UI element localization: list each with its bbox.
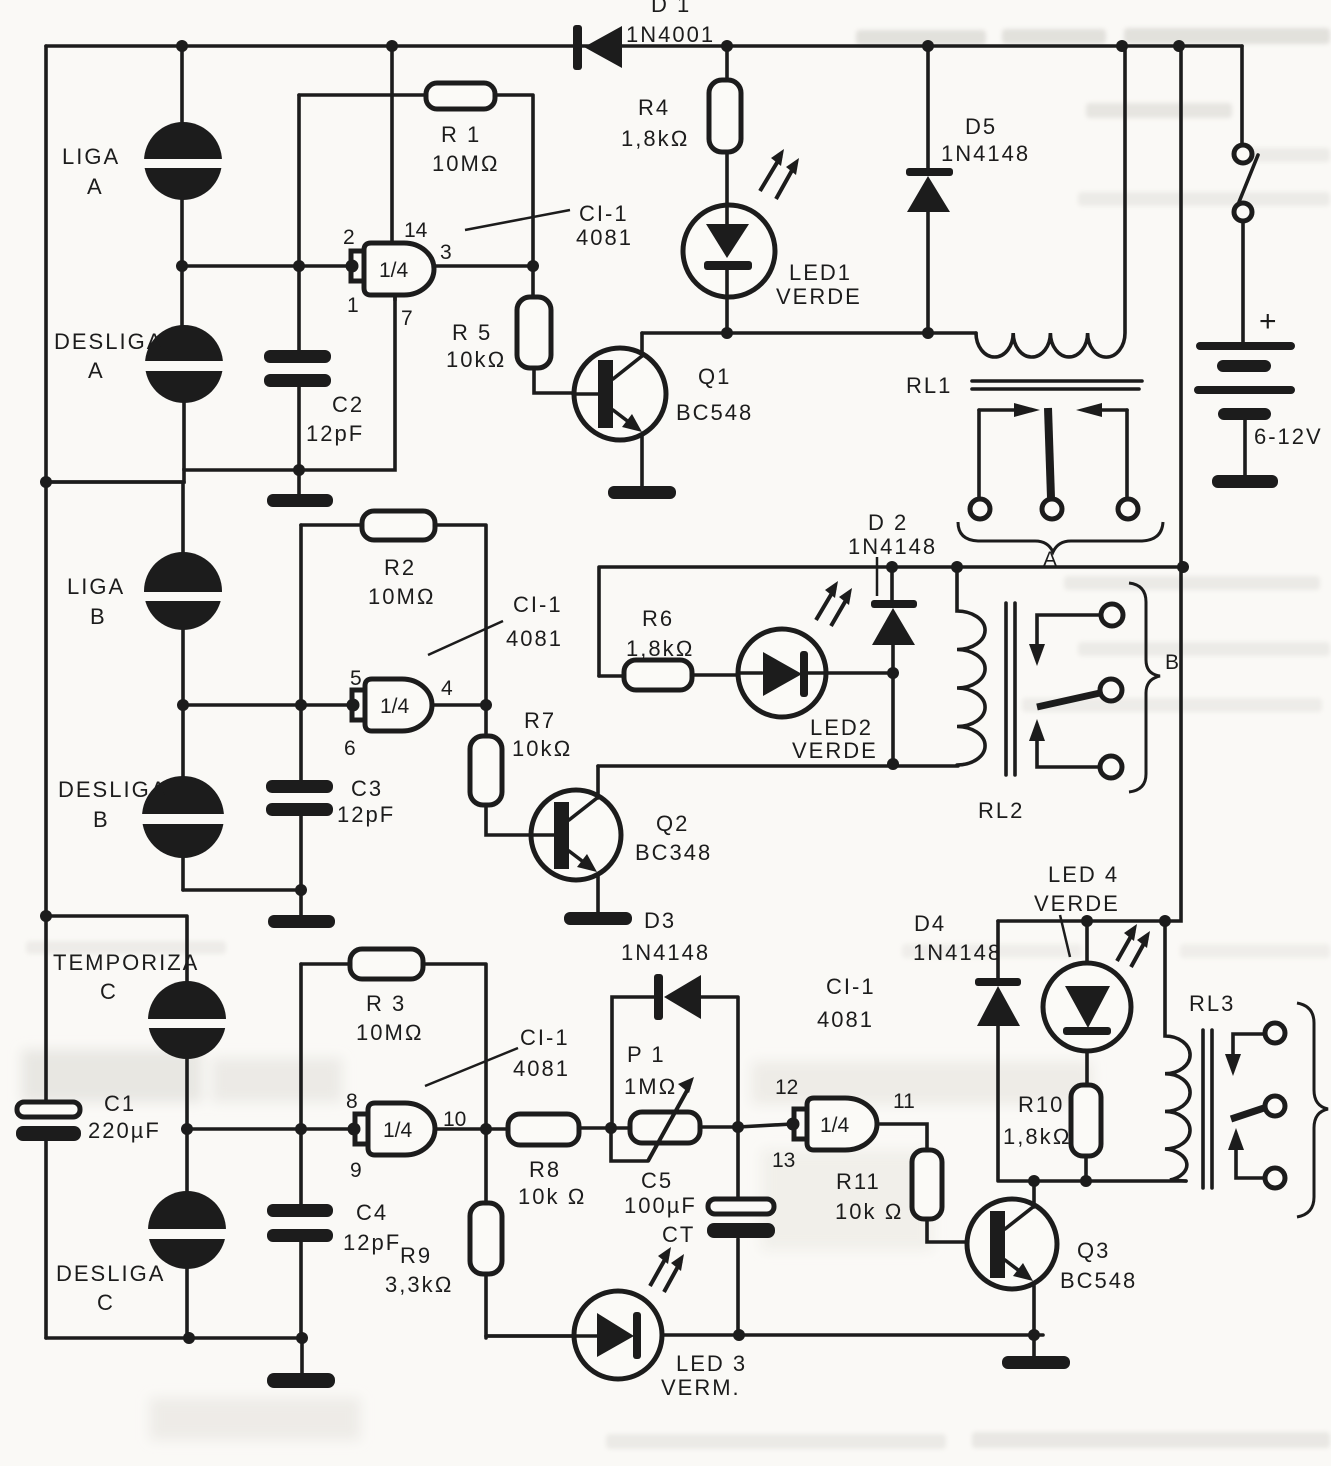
wire gate A input line <box>182 264 348 268</box>
battery B1 6-12V <box>1194 305 1323 488</box>
svg-text:DESLIGA: DESLIGA <box>56 1261 165 1286</box>
svg-text:R 5: R 5 <box>452 320 492 345</box>
svg-text:2: 2 <box>343 226 355 249</box>
LED3 VERM <box>486 1247 747 1400</box>
svg-text:A: A <box>87 174 104 199</box>
svg-text:3: 3 <box>440 241 452 264</box>
svg-text:10k Ω: 10k Ω <box>518 1184 586 1209</box>
touch pad TEMPORIZA C <box>144 981 232 1059</box>
svg-text:4: 4 <box>441 677 453 700</box>
wire left rail <box>44 46 48 1338</box>
op-gate U1D 4081 <box>738 1076 915 1172</box>
svg-text:6-12V: 6-12V <box>1254 424 1323 449</box>
wire rail to TEMPORIZA <box>46 916 187 982</box>
brace contacts B <box>1129 583 1179 792</box>
svg-text:B: B <box>90 604 107 629</box>
wire relay C top <box>998 921 1186 1181</box>
svg-text:C3: C3 <box>351 776 383 801</box>
svg-text:LED 4: LED 4 <box>1048 862 1119 887</box>
label CI-1 4081 (B) <box>428 592 563 655</box>
svg-text:14: 14 <box>404 219 428 242</box>
svg-text:A: A <box>88 358 105 383</box>
resistor R8 10k <box>508 1114 611 1209</box>
transistor Q1 BC548 <box>573 333 753 487</box>
capacitor C4 12pF <box>267 1200 401 1255</box>
wire right rail <box>998 46 1181 921</box>
svg-text:DESLIGA: DESLIGA <box>58 777 167 802</box>
diode D5 1N4148 <box>906 46 1030 333</box>
wire sensor column A <box>182 46 184 470</box>
svg-text:+: + <box>1259 305 1277 338</box>
svg-text:1,8kΩ: 1,8kΩ <box>621 126 689 151</box>
wire bottom left ground run <box>46 1336 302 1340</box>
resistor R1 10M <box>299 83 533 266</box>
wire gate B output <box>433 703 486 707</box>
relay RL3 contacts <box>1225 1023 1285 1188</box>
relay coil RL1 <box>906 46 1142 398</box>
svg-text:TEMPORIZA: TEMPORIZA <box>53 950 199 975</box>
label CI-1 4081 (A) <box>465 201 633 250</box>
svg-text:5: 5 <box>350 667 362 690</box>
transistor Q2 BC348 <box>531 766 712 913</box>
svg-text:BC548: BC548 <box>1060 1268 1137 1293</box>
svg-text:LIGA: LIGA <box>67 574 125 599</box>
svg-text:8: 8 <box>346 1090 358 1113</box>
switch S1 <box>1234 46 1258 342</box>
ground Q2 <box>564 912 632 925</box>
svg-text:10k Ω: 10k Ω <box>835 1199 903 1224</box>
relay coil RL2 <box>957 567 1024 823</box>
relay RL1 contacts <box>970 403 1138 519</box>
svg-text:CT: CT <box>662 1222 695 1247</box>
touch pad DESLIGA B <box>138 776 228 858</box>
resistor R3 10M <box>301 949 486 1129</box>
svg-text:6: 6 <box>344 737 356 760</box>
LED2 VERDE <box>738 581 893 763</box>
svg-text:C: C <box>100 979 118 1004</box>
transistor Q3 BC548 <box>967 1181 1137 1357</box>
svg-text:R6: R6 <box>642 606 674 631</box>
svg-text:1N4001: 1N4001 <box>626 22 715 47</box>
svg-text:CI-1: CI-1 <box>513 592 563 617</box>
svg-text:VERDE: VERDE <box>1034 891 1120 916</box>
ground B <box>268 915 335 928</box>
svg-text:VERDE: VERDE <box>776 284 862 309</box>
svg-text:R9: R9 <box>400 1243 432 1268</box>
svg-text:R4: R4 <box>638 95 670 120</box>
svg-text:Q3: Q3 <box>1077 1238 1110 1263</box>
svg-text:P 1: P 1 <box>627 1042 666 1067</box>
svg-text:B: B <box>1165 651 1179 674</box>
svg-text:7: 7 <box>401 307 413 330</box>
ground Q1 <box>608 486 676 499</box>
svg-text:RL2: RL2 <box>978 798 1024 823</box>
op-gate U1A 4081 <box>343 46 452 330</box>
svg-text:1,8kΩ: 1,8kΩ <box>626 636 694 661</box>
svg-text:C1: C1 <box>104 1091 136 1116</box>
svg-text:VERM.: VERM. <box>661 1375 741 1400</box>
svg-text:LED 3: LED 3 <box>676 1351 747 1376</box>
wire C3 column <box>299 525 303 918</box>
svg-text:4081: 4081 <box>817 1007 874 1032</box>
svg-text:LIGA: LIGA <box>62 144 120 169</box>
svg-text:13: 13 <box>772 1149 795 1172</box>
wire section B relay top <box>599 567 1183 676</box>
capacitor C2 12pF <box>264 350 364 446</box>
svg-text:LED1: LED1 <box>789 260 852 285</box>
svg-text:1: 1 <box>347 294 359 317</box>
svg-text:RL3: RL3 <box>1189 991 1235 1016</box>
svg-text:4081: 4081 <box>506 626 563 651</box>
svg-text:D4: D4 <box>914 911 946 936</box>
touch pad LIGA B <box>140 552 226 630</box>
touch pad DESLIGA C <box>144 1191 232 1269</box>
svg-text:C5: C5 <box>641 1168 673 1193</box>
op-gate U1C 4081 <box>346 1090 466 1182</box>
svg-text:12: 12 <box>775 1076 798 1099</box>
svg-text:R 3: R 3 <box>366 991 406 1016</box>
svg-text:CI-1: CI-1 <box>579 201 629 226</box>
wire top +V rail <box>46 44 1242 48</box>
svg-text:BC348: BC348 <box>635 840 712 865</box>
svg-text:R2: R2 <box>384 555 416 580</box>
wire sensor column B <box>46 482 184 890</box>
svg-text:Q1: Q1 <box>698 364 731 389</box>
wire gate B input line <box>183 703 348 707</box>
brace contacts A <box>958 522 1163 571</box>
svg-text:LED2: LED2 <box>810 715 873 740</box>
svg-text:B: B <box>93 807 110 832</box>
diode D1 <box>573 0 715 70</box>
trimpot P1 1M <box>611 1042 738 1161</box>
svg-text:D3: D3 <box>644 908 676 933</box>
svg-text:R 1: R 1 <box>441 122 481 147</box>
resistor R9 3,3k <box>385 1129 574 1338</box>
op-gate U1B 4081 <box>344 667 453 760</box>
svg-text:10kΩ: 10kΩ <box>512 736 572 761</box>
wire gate C output <box>437 1127 508 1131</box>
diode D3 1N4148 loop <box>612 908 738 1128</box>
svg-text:1/4: 1/4 <box>379 259 409 282</box>
wire section A bottom <box>46 295 395 482</box>
LED1 VERDE <box>683 149 862 333</box>
svg-text:1N4148: 1N4148 <box>941 141 1030 166</box>
resistor R7 10k <box>470 705 572 835</box>
capacitor C5 100uF CT <box>624 1126 775 1335</box>
svg-text:C2: C2 <box>332 392 364 417</box>
LED4 VERDE <box>1034 862 1150 1085</box>
resistor R11 10k <box>835 1124 991 1242</box>
svg-text:12pF: 12pF <box>343 1230 401 1255</box>
touch pad LIGA A <box>140 122 226 200</box>
svg-text:R7: R7 <box>524 708 556 733</box>
wire C2 column <box>297 95 301 496</box>
wire Q1 collector run <box>642 331 976 335</box>
relay RL2 contacts <box>1029 604 1123 778</box>
capacitor C3 12pF <box>266 776 395 827</box>
svg-text:D 1: D 1 <box>651 0 691 17</box>
ground C <box>267 1373 335 1388</box>
resistor R6 1,8k <box>599 606 738 690</box>
node junction dots <box>176 260 1189 1344</box>
svg-text:12pF: 12pF <box>306 421 364 446</box>
ground A <box>267 494 333 507</box>
svg-text:1,8kΩ: 1,8kΩ <box>1003 1124 1071 1149</box>
svg-text:11: 11 <box>893 1090 915 1113</box>
svg-text:1N4148: 1N4148 <box>913 940 1002 965</box>
wire gate C input line <box>187 1127 348 1131</box>
wire sensor column C <box>185 982 189 1338</box>
svg-text:C: C <box>97 1290 115 1315</box>
svg-text:10kΩ: 10kΩ <box>446 347 506 372</box>
resistor R4 1,8k <box>621 46 741 204</box>
svg-text:10MΩ: 10MΩ <box>356 1020 424 1045</box>
svg-text:4081: 4081 <box>576 225 633 250</box>
svg-text:1/4: 1/4 <box>380 695 410 718</box>
svg-text:DESLIGA: DESLIGA <box>54 329 163 354</box>
svg-text:D5: D5 <box>965 114 997 139</box>
svg-text:Q2: Q2 <box>656 811 689 836</box>
svg-text:CI-1: CI-1 <box>826 974 876 999</box>
svg-text:1/4: 1/4 <box>383 1119 413 1142</box>
svg-text:R8: R8 <box>529 1157 561 1182</box>
ground Q3 <box>1002 1356 1070 1369</box>
svg-text:C4: C4 <box>356 1200 388 1225</box>
svg-text:R10: R10 <box>1018 1092 1064 1117</box>
svg-text:4081: 4081 <box>513 1056 570 1081</box>
svg-text:100µF: 100µF <box>624 1193 697 1218</box>
svg-text:1N4148: 1N4148 <box>848 534 937 559</box>
node top wire junctions <box>40 40 1185 922</box>
svg-text:10MΩ: 10MΩ <box>368 584 436 609</box>
svg-text:RL1: RL1 <box>906 373 952 398</box>
svg-text:CI-1: CI-1 <box>520 1025 570 1050</box>
capacitor C1 220uF <box>16 1091 161 1143</box>
wire section B bottom <box>183 888 301 892</box>
resistor R10 1,8k <box>1003 1085 1101 1181</box>
diode D4 1N4148 <box>913 911 1021 1026</box>
wire gate A output <box>434 264 533 268</box>
label CI-1 4081 (C) <box>425 1025 570 1086</box>
svg-text:1MΩ: 1MΩ <box>624 1074 677 1099</box>
svg-text:9: 9 <box>350 1159 362 1182</box>
svg-text:3,3kΩ: 3,3kΩ <box>385 1272 453 1297</box>
wire C4 column <box>301 964 302 1375</box>
relay coil RL3 <box>1165 921 1235 1188</box>
svg-text:10MΩ: 10MΩ <box>432 151 500 176</box>
wire bottom right run <box>662 1333 1043 1337</box>
svg-text:VERDE: VERDE <box>792 738 878 763</box>
svg-text:D 2: D 2 <box>868 510 908 535</box>
svg-text:220µF: 220µF <box>88 1118 161 1143</box>
diode D2 1N4148 <box>848 510 937 764</box>
resistor R2 10M <box>301 511 486 705</box>
svg-text:1/4: 1/4 <box>820 1114 850 1137</box>
svg-text:1N4148: 1N4148 <box>621 940 710 965</box>
svg-text:BC548: BC548 <box>676 400 753 425</box>
brace contacts C <box>1297 1003 1328 1217</box>
svg-text:R11: R11 <box>836 1169 881 1194</box>
wire Q2 collector run <box>598 764 958 768</box>
svg-text:12pF: 12pF <box>337 802 395 827</box>
touch pad DESLIGA A <box>141 325 227 403</box>
resistor R5 10k <box>446 266 573 393</box>
